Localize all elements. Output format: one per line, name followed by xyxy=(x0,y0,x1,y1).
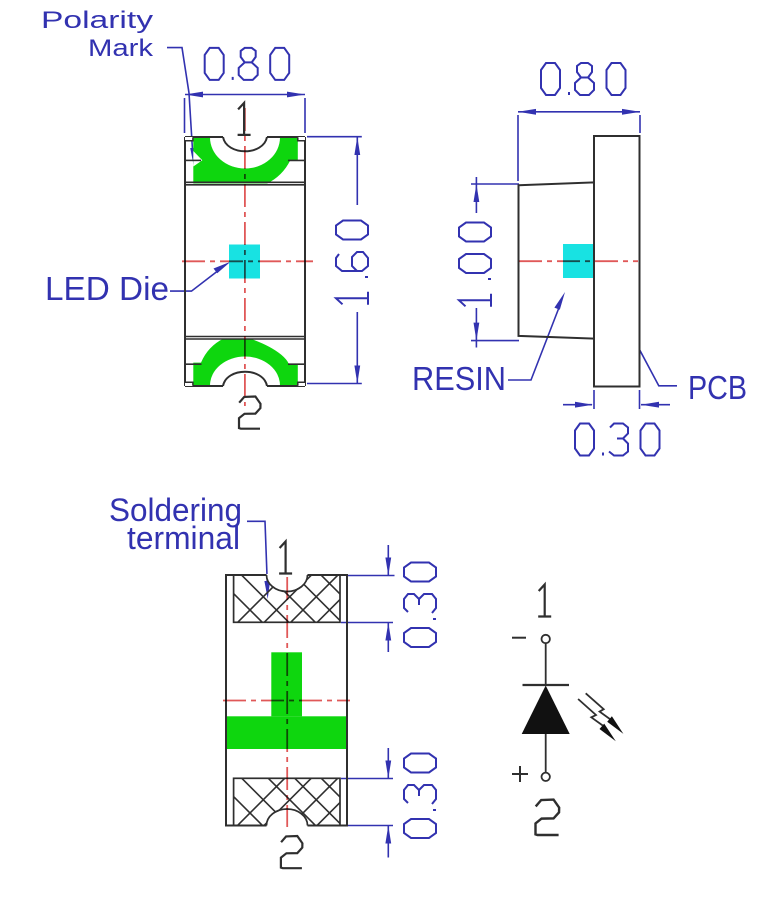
svg-text:terminal: terminal xyxy=(127,520,240,556)
LED die top view xyxy=(229,245,260,279)
dimension 0.30 footprint bottom xyxy=(341,748,393,858)
leader soldering terminal xyxy=(247,521,270,599)
leader PCB xyxy=(622,315,678,385)
soldering pad top (hatched) xyxy=(200,560,406,660)
dimension 0.30 side view xyxy=(563,390,670,409)
svg-text:Polarity: Polarity xyxy=(41,7,153,34)
cathode terminal circle xyxy=(542,635,550,643)
green trace T shape footprint xyxy=(226,652,347,749)
body outline footprint xyxy=(226,575,347,826)
vertical centerline footprint xyxy=(286,577,288,827)
dimension 0.80 side view xyxy=(518,109,640,181)
PCB side view xyxy=(594,136,640,387)
text 0.80 side view xyxy=(541,63,626,95)
dimension 1.00 xyxy=(471,177,519,348)
LED die side view xyxy=(563,244,597,278)
text 0.80 top view xyxy=(205,48,290,80)
text 0.30 footprint bottom rotated xyxy=(404,754,436,839)
pin 1 label symbol xyxy=(538,585,551,617)
pin number 2 top view xyxy=(239,397,261,429)
svg-text:LED Die: LED Die xyxy=(45,270,169,307)
horizontal centerline top view xyxy=(182,260,313,262)
horizontal centerline side view xyxy=(519,260,638,262)
top terminal green arch xyxy=(193,107,299,184)
text 1.00 rotated xyxy=(459,223,491,307)
label Soldering terminal xyxy=(109,492,242,556)
light arrow 1 xyxy=(586,693,624,734)
package body outline top view xyxy=(185,137,305,386)
light arrow 2 xyxy=(578,699,616,741)
anode terminal circle xyxy=(542,773,550,781)
notch arcs top view xyxy=(223,137,267,386)
pin number 1 top view xyxy=(238,103,251,135)
terminal band separation lines top view xyxy=(185,182,305,339)
minus sign xyxy=(512,637,526,639)
label RESIN xyxy=(412,360,506,397)
anode wire xyxy=(545,734,547,773)
leader polarity mark xyxy=(167,48,196,166)
label PCB xyxy=(688,369,747,406)
svg-text:Mark: Mark xyxy=(88,35,154,62)
leader RESIN xyxy=(508,292,565,380)
leader LED die xyxy=(170,262,231,291)
resin body side view xyxy=(519,182,595,338)
label LED Die xyxy=(45,270,169,307)
text 0.30 side view xyxy=(575,424,660,456)
vertical centerline top view xyxy=(244,108,246,406)
dimension 1.60 xyxy=(307,137,362,384)
horizontal centerline footprint xyxy=(223,700,350,702)
diode triangle xyxy=(522,686,570,735)
dimension 0.80 top view xyxy=(185,92,306,133)
label Polarity Mark xyxy=(41,7,154,62)
text 1.60 rotated xyxy=(336,221,368,305)
cathode bar xyxy=(523,684,570,686)
pin number 2 footprint xyxy=(281,836,303,868)
polarity notch boxes at corners xyxy=(185,137,305,386)
svg-text:PCB: PCB xyxy=(688,369,747,406)
text 0.30 footprint top rotated xyxy=(404,563,436,648)
bottom terminal green arch xyxy=(193,339,300,415)
svg-text:RESIN: RESIN xyxy=(412,360,506,397)
terminal tick lines xyxy=(185,160,305,364)
cathode wire xyxy=(545,643,547,685)
plus sign xyxy=(512,766,528,782)
soldering pad bottom (hatched) xyxy=(200,763,406,863)
pin 2 label symbol xyxy=(536,800,560,835)
pin number 1 footprint xyxy=(279,542,292,574)
dimension 0.30 footprint top xyxy=(341,545,395,652)
